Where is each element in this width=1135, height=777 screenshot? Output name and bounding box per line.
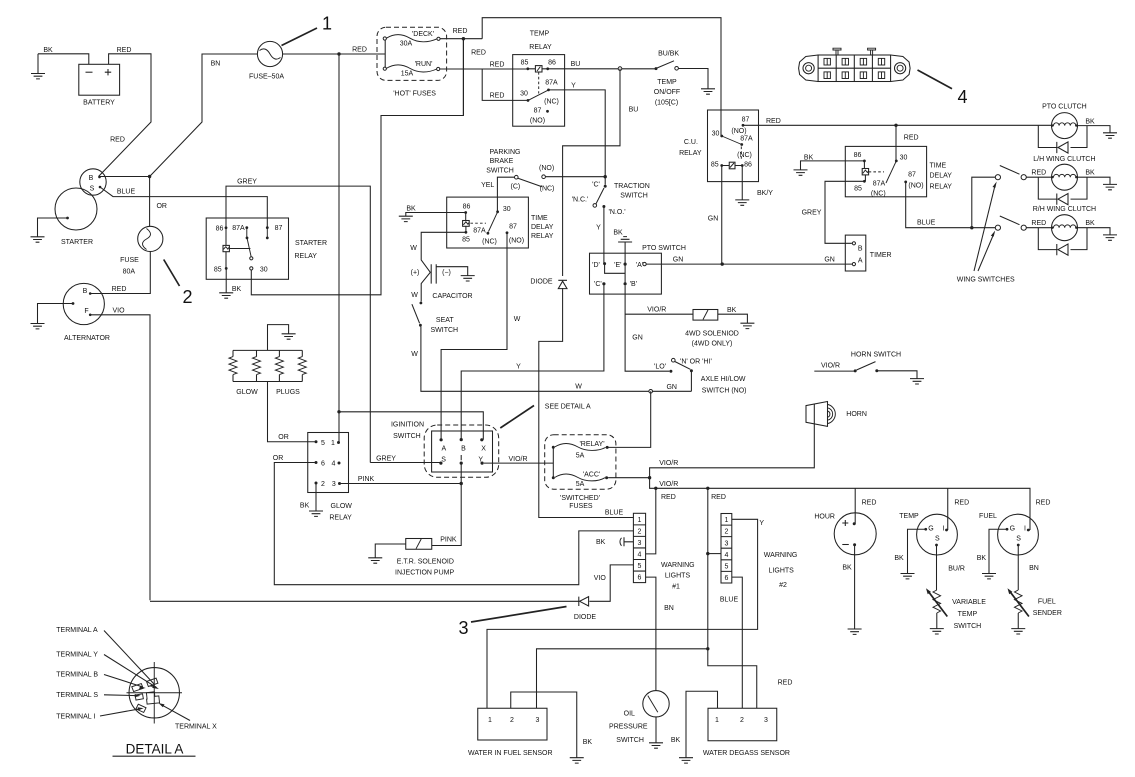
svg-text:1: 1 [724, 517, 728, 524]
wire RUN fuse to temp relay 85 [440, 68, 528, 70]
svg-text:I: I [1024, 526, 1026, 533]
svg-text:BLUE: BLUE [117, 189, 136, 196]
svg-text:RED: RED [1031, 220, 1046, 227]
svg-text:SWITCH: SWITCH [486, 168, 514, 175]
WIF BK ground [570, 739, 593, 763]
wire VIO/R ignition Y to switched fuses [484, 462, 553, 464]
svg-text:GN: GN [708, 216, 719, 223]
svg-text:(NC): (NC) [544, 99, 559, 106]
capacitor C1 [411, 264, 473, 300]
svg-text:W: W [575, 384, 582, 391]
R/H clutch ground [1078, 228, 1118, 241]
svg-text:'SWITCHED': 'SWITCHED' [560, 495, 600, 502]
wire RED distribution [650, 478, 1030, 530]
svg-text:85: 85 [462, 237, 470, 244]
svg-text:85: 85 [711, 162, 719, 169]
svg-text:W: W [514, 316, 521, 323]
svg-text:4: 4 [957, 87, 967, 107]
horn switch ground [877, 371, 924, 384]
svg-text:SEE DETAIL A: SEE DETAIL A [545, 404, 591, 411]
svg-text:BK: BK [406, 206, 416, 213]
svg-text:GLOW: GLOW [236, 389, 258, 396]
svg-text:TIME: TIME [930, 163, 947, 170]
svg-text:2: 2 [321, 481, 325, 488]
battery ground [31, 54, 45, 79]
wire RED C.U. 87 to PTO clutch [743, 124, 1052, 126]
alternator G1 [63, 283, 110, 342]
svg-text:'E': 'E' [614, 262, 621, 269]
timer T1 [845, 235, 891, 271]
svg-text:(NO): (NO) [509, 238, 524, 245]
svg-text:1: 1 [488, 717, 492, 724]
svg-text:87: 87 [534, 108, 542, 115]
svg-text:HORN SWITCH: HORN SWITCH [851, 352, 901, 359]
svg-text:BU: BU [571, 61, 581, 68]
glow plugs R1-R4 [229, 325, 306, 396]
svg-text:TEMP: TEMP [958, 611, 978, 618]
node BU junction [618, 67, 622, 71]
wire diode to warning blue [539, 288, 634, 518]
svg-text:FUEL: FUEL [1038, 599, 1056, 606]
svg-text:WATER IN FUEL SENSOR: WATER IN FUEL SENSOR [468, 750, 553, 757]
wire traction NO to PTO D [603, 207, 605, 264]
svg-text:3: 3 [536, 717, 540, 724]
svg-text:R/H WING CLUTCH: R/H WING CLUTCH [1033, 206, 1096, 213]
svg-text:YEL: YEL [481, 182, 494, 189]
svg-text:TERMINAL A: TERMINAL A [56, 627, 98, 634]
svg-text:'HOT' FUSES: 'HOT' FUSES [393, 91, 436, 98]
svg-text:RED: RED [352, 47, 367, 54]
svg-text:VIO/R: VIO/R [647, 307, 666, 314]
temp on/off ground [678, 69, 715, 95]
svg-text:RED: RED [471, 50, 486, 57]
svg-text:(+): (+) [411, 270, 420, 277]
svg-text:(NC): (NC) [737, 152, 752, 159]
svg-text:2: 2 [740, 717, 744, 724]
svg-text:LIGHTS: LIGHTS [769, 568, 795, 575]
node GN junction [721, 262, 724, 265]
traction switch S3 [572, 182, 650, 217]
svg-text:86: 86 [744, 162, 752, 169]
PTO clutch Y1 [1042, 104, 1095, 139]
label TERMINAL B [56, 672, 146, 690]
node B junction [100, 175, 152, 178]
svg-text:A: A [441, 446, 446, 453]
PTO clutch diode [1038, 126, 1087, 154]
svg-text:86: 86 [463, 204, 471, 211]
svg-text:RELAY: RELAY [531, 233, 554, 240]
node PTO clutch junction [894, 124, 897, 127]
seat switch S4 [412, 302, 458, 334]
oil switch ground [649, 717, 663, 748]
svg-text:INJECTION PUMP: INJECTION PUMP [395, 570, 454, 577]
E.T.R. ground [368, 544, 406, 563]
node PINK junction [460, 482, 463, 485]
starter ground [31, 218, 68, 242]
wire to right TDR 30 [895, 125, 897, 161]
svg-text:RED: RED [766, 118, 781, 125]
node RED warning 1 junction [654, 487, 657, 490]
wire branch to temp relay 30 [482, 69, 528, 100]
svg-text:B: B [83, 288, 88, 295]
svg-text:2: 2 [510, 717, 514, 724]
switched fuses block [545, 435, 616, 510]
svg-text:RED: RED [904, 135, 919, 142]
svg-text:W: W [411, 292, 418, 299]
svg-text:87A: 87A [740, 136, 753, 143]
svg-text:'C': 'C' [592, 182, 600, 189]
svg-text:3: 3 [332, 481, 336, 488]
wire Y temp relay 87A [549, 90, 606, 185]
svg-text:6: 6 [321, 461, 325, 468]
node wing junction [970, 226, 973, 229]
svg-text:VIO: VIO [112, 308, 125, 315]
label WING SWITCHES with arrows [957, 182, 1015, 284]
node main RED junction [337, 52, 340, 55]
svg-text:(NO): (NO) [539, 165, 554, 172]
svg-text:BK: BK [583, 739, 593, 746]
svg-text:BN: BN [664, 605, 674, 612]
svg-text:(NC): (NC) [482, 239, 497, 246]
svg-text:(NO): (NO) [530, 118, 545, 125]
svg-text:2: 2 [182, 287, 192, 307]
svg-text:STARTER: STARTER [61, 239, 93, 246]
wire YEL parking brake to TDR 30 [497, 177, 514, 212]
svg-text:DELAY: DELAY [930, 173, 953, 180]
svg-text:SWITCH: SWITCH [393, 433, 421, 440]
svg-text:AXLE HI/LOW: AXLE HI/LOW [701, 376, 746, 383]
'HOT' fuses block [377, 27, 447, 97]
4WD solenoid L1 [685, 310, 739, 348]
wire RED to fuel I [1028, 529, 1030, 531]
axle hi/low switch S6 [654, 358, 747, 394]
wire degass pin1 to ground [686, 691, 718, 757]
L/H clutch ground [1078, 177, 1118, 190]
svg-text:W: W [410, 245, 417, 252]
diode D2 [150, 597, 596, 621]
node relay fuse junction [649, 390, 653, 394]
svg-text:BK: BK [596, 539, 606, 546]
svg-text:IGINITION: IGINITION [391, 422, 424, 429]
svg-text:30: 30 [712, 131, 720, 138]
svg-text:Y: Y [571, 83, 576, 90]
svg-text:86: 86 [216, 226, 224, 233]
svg-text:'N.C.': 'N.C.' [572, 197, 589, 204]
svg-text:TIMER: TIMER [870, 252, 892, 259]
wire RED to temp I [947, 488, 948, 530]
svg-text:TERMINAL X: TERMINAL X [175, 724, 217, 731]
wire OR to fuse 80A [149, 177, 151, 227]
svg-text:RELAY: RELAY [679, 150, 702, 157]
pointer 4 [918, 70, 968, 107]
svg-text:B: B [461, 446, 466, 453]
svg-text:L/H WING CLUTCH: L/H WING CLUTCH [1033, 156, 1095, 163]
svg-text:BK: BK [842, 565, 852, 572]
node RED warning 2 junction [706, 487, 709, 490]
svg-text:PTO SWITCH: PTO SWITCH [642, 245, 686, 252]
alternator ground [31, 304, 74, 329]
svg-text:DIODE: DIODE [530, 279, 553, 286]
svg-text:S: S [441, 457, 446, 464]
label TERMINAL I [56, 707, 143, 720]
svg-text:BU: BU [629, 107, 639, 114]
svg-text:5A: 5A [576, 453, 585, 460]
node WL2 pin4 junction [706, 552, 721, 555]
svg-text:BN: BN [211, 61, 221, 68]
svg-text:TERMINAL S: TERMINAL S [56, 692, 98, 699]
svg-text:TERMINAL B: TERMINAL B [56, 672, 98, 679]
wire battery negative [38, 54, 89, 65]
wire top feed to C.U. relay [482, 18, 721, 136]
wire fuse80A to alternator B [90, 252, 150, 294]
wire OR glow plugs to relay 5 [268, 382, 315, 442]
C.U. relay K4 [679, 110, 758, 182]
svg-text:'B': 'B' [630, 281, 637, 288]
svg-text:B: B [858, 246, 863, 253]
svg-text:S: S [1016, 536, 1021, 543]
starter solenoid B/S [80, 169, 106, 195]
svg-text:RED: RED [110, 137, 125, 144]
wire RED to hour + [854, 488, 856, 524]
temp relay K2 [513, 31, 565, 127]
L/H wing switch [995, 166, 1026, 180]
wire BLUE WL2 pin6 to degass 2 [732, 577, 743, 708]
svg-text:X: X [481, 446, 486, 453]
svg-text:SWITCH: SWITCH [620, 192, 648, 199]
svg-text:TEMP: TEMP [899, 513, 919, 520]
svg-text:RELAY: RELAY [529, 44, 552, 51]
svg-text:LIGHTS: LIGHTS [665, 573, 691, 580]
svg-text:87A: 87A [232, 225, 245, 232]
svg-text:VIO/R: VIO/R [821, 362, 840, 369]
horn switch S7 [814, 352, 901, 373]
svg-text:RELAY: RELAY [930, 184, 953, 191]
svg-text:TIME: TIME [531, 215, 548, 222]
svg-text:FUSE: FUSE [120, 257, 139, 264]
svg-text:BK: BK [804, 155, 814, 162]
svg-text:RED: RED [490, 62, 505, 69]
svg-text:6: 6 [638, 575, 642, 582]
svg-text:TERMINAL I: TERMINAL I [56, 714, 95, 721]
svg-text:BK/Y: BK/Y [757, 190, 773, 197]
svg-text:1: 1 [715, 717, 719, 724]
E.T.R. solenoid L2 [395, 539, 454, 577]
label TERMINAL S [56, 692, 140, 699]
starter M1 [55, 188, 97, 246]
svg-text:BK: BK [43, 47, 53, 54]
svg-text:WARNING: WARNING [661, 562, 695, 569]
svg-text:GREY: GREY [376, 456, 396, 463]
svg-text:OR: OR [278, 434, 289, 441]
R/H clutch diode [1038, 228, 1087, 256]
PTO E ground up [613, 230, 632, 265]
connector item 4 [799, 48, 911, 81]
svg-text:RED: RED [661, 494, 676, 501]
svg-text:(NC): (NC) [540, 186, 555, 193]
svg-text:'A': 'A' [636, 262, 643, 269]
svg-text:BLUE: BLUE [917, 220, 936, 227]
svg-text:RED: RED [862, 500, 877, 507]
temp on/off switch [654, 51, 680, 107]
svg-text:OR: OR [273, 455, 284, 462]
svg-text:VIO: VIO [594, 575, 607, 582]
svg-text:'RUN': 'RUN' [415, 61, 433, 68]
svg-text:85: 85 [854, 186, 862, 193]
svg-text:BLUE: BLUE [605, 510, 624, 517]
svg-text:B: B [89, 175, 94, 182]
glow relay K6 [308, 433, 353, 522]
wire RED vertical to glow relay 1 [338, 54, 340, 443]
svg-text:S: S [935, 536, 940, 543]
variable temp switch R5 [926, 588, 986, 634]
label DETAIL A [113, 742, 196, 757]
L/H clutch diode [1038, 177, 1087, 205]
wire ACC output junction [608, 476, 651, 479]
svg-text:VIO/R: VIO/R [508, 456, 527, 463]
wire ignition I to PINK junction [432, 463, 461, 545]
svg-text:BATTERY: BATTERY [83, 100, 115, 107]
wire VIO/R to 4WD solenoid [625, 313, 693, 315]
wire Y PTO C to ignition B [461, 284, 604, 440]
svg-text:SWITCH: SWITCH [616, 737, 644, 744]
svg-text:BK: BK [613, 230, 623, 237]
wire BN [150, 54, 258, 177]
svg-text:GREY: GREY [802, 210, 822, 217]
svg-text:87A: 87A [473, 228, 486, 235]
svg-text:WING SWITCHES: WING SWITCHES [957, 277, 1015, 284]
wire VIO alternator F [90, 315, 150, 601]
svg-text:GN: GN [673, 257, 684, 264]
svg-text:BLUE: BLUE [720, 597, 739, 604]
svg-text:WATER DEGASS SENSOR: WATER DEGASS SENSOR [703, 750, 790, 757]
svg-text:4: 4 [638, 552, 642, 559]
svg-text:TRACTION: TRACTION [614, 183, 650, 190]
svg-text:BK: BK [1085, 170, 1095, 177]
svg-text:(C): (C) [511, 184, 521, 191]
node DECK output junction [440, 37, 482, 40]
svg-text:I: I [943, 526, 945, 533]
svg-text:86: 86 [548, 60, 556, 67]
svg-text:RED: RED [1031, 170, 1046, 177]
svg-text:STARTER: STARTER [295, 240, 327, 247]
wire RED to L/H clutch [1026, 176, 1051, 178]
svg-text:PINK: PINK [440, 537, 457, 544]
svg-text:87A: 87A [873, 180, 886, 187]
wire PINK glow relay 3 [341, 483, 461, 485]
svg-text:G: G [928, 526, 933, 533]
svg-text:87: 87 [742, 117, 750, 124]
svg-text:RED: RED [1036, 500, 1051, 507]
svg-text:5: 5 [724, 563, 728, 570]
svg-text:'N' OR 'HI': 'N' OR 'HI' [680, 359, 712, 366]
svg-text:30: 30 [520, 91, 528, 98]
svg-text:PTO CLUTCH: PTO CLUTCH [1042, 104, 1087, 111]
right TDR 86 ground [794, 155, 865, 176]
svg-text:4WD SOLENIOD: 4WD SOLENIOD [685, 331, 739, 338]
svg-text:BK: BK [727, 307, 737, 314]
4WD solenoid ground [718, 307, 755, 329]
wire VIO WL1 pin5 diode feed [589, 565, 633, 601]
svg-text:5: 5 [321, 440, 325, 447]
svg-text:30: 30 [503, 206, 511, 213]
svg-text:87A: 87A [545, 80, 558, 87]
L/H wing clutch Y2 [1051, 164, 1095, 190]
svg-text:Y: Y [478, 456, 483, 463]
wire BN fuel S to sender [1017, 545, 1019, 590]
svg-text:TERMINAL Y: TERMINAL Y [56, 652, 98, 659]
wire W TDR 85 to seat switch [421, 232, 466, 301]
svg-text:(NO): (NO) [908, 183, 923, 190]
svg-text:'LO': 'LO' [654, 364, 666, 371]
svg-text:6: 6 [724, 575, 728, 582]
svg-text:GN: GN [824, 257, 835, 264]
pointer 1 [282, 14, 333, 46]
svg-text:BU/BK: BU/BK [658, 51, 679, 58]
fuse FUSE 80A [120, 226, 163, 275]
svg-text:BK: BK [232, 286, 242, 293]
svg-text:#1: #1 [672, 584, 680, 591]
svg-text:RED: RED [117, 47, 132, 54]
label TERMINAL A [56, 627, 157, 687]
fuel gauge M4 [979, 513, 1038, 555]
svg-text:RED: RED [778, 680, 793, 687]
node degass RED junction [706, 647, 709, 650]
diode D1 [530, 279, 567, 289]
svg-text:5: 5 [638, 563, 642, 570]
svg-text:BN: BN [1029, 565, 1039, 572]
svg-text:GREY: GREY [237, 179, 257, 186]
right time delay relay K5 [845, 146, 952, 197]
svg-text:SWITCH: SWITCH [430, 327, 458, 334]
svg-text:3: 3 [458, 618, 468, 638]
svg-text:WARNING: WARNING [764, 552, 798, 559]
ignition switch S1 [391, 422, 499, 478]
svg-text:PLUGS: PLUGS [276, 389, 300, 396]
wire GREY right TDR 85 to timer B [825, 181, 864, 243]
svg-text:85: 85 [214, 267, 222, 274]
svg-text:BK: BK [300, 503, 310, 510]
TDR 86 BK ground [399, 206, 466, 222]
horn H1 [806, 402, 867, 427]
svg-text:RED: RED [954, 500, 969, 507]
svg-text:'D': 'D' [592, 262, 600, 269]
glow relay 2 ground [300, 483, 323, 516]
wire Y WL2 pin1 to water in fuel 1 [487, 519, 758, 708]
svg-text:3: 3 [724, 540, 728, 547]
svg-text:80A: 80A [123, 269, 136, 276]
wire RED to ignition X [339, 412, 483, 440]
svg-text:OIL: OIL [624, 711, 635, 718]
svg-text:Y: Y [516, 364, 521, 371]
pointer 3 [458, 607, 566, 639]
svg-text:1: 1 [331, 440, 335, 447]
wire PTO B to 4WD and axle [625, 285, 669, 371]
C.U. 86 ground [735, 166, 773, 206]
svg-text:F: F [84, 308, 88, 315]
starter relay K1 [206, 218, 327, 279]
svg-text:30A: 30A [400, 41, 413, 48]
svg-text:PARKING: PARKING [490, 149, 521, 156]
wire RED to R/H clutch [1026, 227, 1051, 229]
svg-text:DIODE: DIODE [574, 614, 597, 621]
svg-text:30: 30 [900, 155, 908, 162]
svg-text:RED: RED [490, 93, 505, 100]
svg-text:DETAIL A: DETAIL A [126, 742, 184, 757]
svg-text:RED: RED [711, 494, 726, 501]
svg-text:(105[C): (105[C) [655, 100, 678, 107]
svg-text:W: W [411, 351, 418, 358]
svg-text:4: 4 [332, 461, 336, 468]
